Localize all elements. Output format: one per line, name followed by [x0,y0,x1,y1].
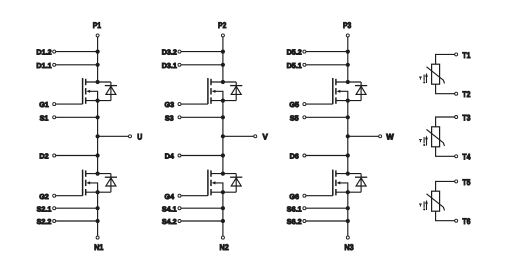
wire S2.1 to bus [56,207,98,209]
junction D2/bus [96,153,100,157]
wire bus: upper MOSFET source down to lower MOSFET drain [222,101,224,174]
junction D1.2/bus [96,50,100,54]
wire T5 to thermistor 3 [436,181,455,191]
junction D1.1/bus [96,63,100,67]
terminal D5.1 [287,61,306,70]
svg-text:P3: P3 [343,21,352,30]
svg-text:N3: N3 [344,243,354,252]
terminal G5 [289,100,305,109]
junction source/bus [96,190,100,194]
wire D5.2 to bus [306,51,348,53]
MOSFET upper leg (G5 device) [333,78,361,104]
wire bus: upper MOSFET source down to lower MOSFET drain [347,101,349,174]
thermistor 3 (NTC) [427,191,445,211]
terminal G3 [165,100,181,109]
svg-text:S4.2: S4.2 [162,217,177,226]
junction source/bus [346,99,350,103]
wire T1 to thermistor 1 [436,54,455,64]
junction S4.2/bus [221,219,225,223]
wire D3.2 to bus [181,51,223,53]
MOSFET upper leg (G3 device) [208,78,236,104]
terminal S6.2 [287,217,306,226]
wire G2 to gate [56,195,83,197]
svg-text:D4: D4 [165,152,174,161]
terminal N3 [344,236,354,252]
junction S2.2/bus [96,219,100,223]
svg-text:G2: G2 [39,192,49,201]
junction D5.1/bus [346,63,350,67]
wire thermistor 2 to T4 [436,147,455,157]
terminal T6 [455,217,471,226]
terminal S4.2 [162,217,181,226]
wire S1 to bus [56,116,98,118]
terminal P2 [218,21,227,37]
junction drain/bus [221,80,225,84]
junction source/bus [346,190,350,194]
wire thermistor 3 to T6 [436,211,455,221]
svg-text:S6.2: S6.2 [287,217,302,226]
terminal G6 [289,192,305,201]
terminal S4.1 [162,204,181,213]
svg-text:S2.2: S2.2 [37,217,52,226]
MOSFET lower leg (G4 device) [208,170,236,196]
terminal V [254,133,269,142]
wire lower MOSFET source bus down to N1 [97,192,99,236]
wire bus to output V [223,135,254,137]
svg-text:N2: N2 [219,243,229,252]
terminal N1 [94,236,104,252]
junction source/bus [221,190,225,194]
wire D4 to bus [181,155,223,157]
terminal D3.1 [162,61,181,70]
svg-text:P1: P1 [93,21,102,30]
wire D1.1 to bus [56,64,98,66]
wire G6 to gate [306,195,333,197]
wire T3 to thermistor 2 [436,117,455,127]
wire S2.2 to bus [56,220,98,222]
wire D5.1 to bus [306,64,348,66]
junction S6.2/bus [346,219,350,223]
svg-text:D5.2: D5.2 [287,48,302,57]
wire D1.2 to bus [56,51,98,53]
body diode of lower MOSFET [355,174,367,193]
body diode of lower MOSFET [230,174,242,193]
terminal G4 [165,192,181,201]
junction drain/bus [96,172,100,176]
terminal T1 [455,51,471,60]
wire G4 to gate [181,195,208,197]
wire thermistor 1 to T2 [436,84,455,94]
junction D5.2/bus [346,50,350,54]
svg-text:D5.1: D5.1 [287,61,302,70]
svg-text:S3: S3 [165,113,174,122]
MOSFET lower leg (G6 device) [333,170,361,196]
wire S3 to bus [181,116,223,118]
junction D3.1/bus [221,63,225,67]
svg-text:D1.2: D1.2 [36,48,51,57]
svg-text:D3.1: D3.1 [162,61,177,70]
temperature arrow annotation of thermistor 2 [419,135,428,146]
junction output W/bus [346,134,350,138]
terminal T3 [455,113,471,122]
terminal W [379,133,394,142]
terminal S6.1 [287,204,306,213]
temperature arrow annotation of thermistor 3 [419,200,428,211]
terminal G2 [39,192,55,201]
wire P2 bus down to upper MOSFET drain [222,37,224,82]
svg-text:S2.1: S2.1 [37,204,52,213]
terminal S1 [40,113,56,122]
wire D2 to bus [56,155,98,157]
svg-text:S5: S5 [290,113,299,122]
terminal P1 [93,21,102,37]
svg-text:T6: T6 [462,217,470,226]
svg-text:T3: T3 [462,113,470,122]
svg-text:D3.2: D3.2 [162,48,177,57]
terminal D4 [165,152,181,161]
svg-text:G5: G5 [289,100,299,109]
terminal D1.1 [36,61,55,70]
wire bus to output U [98,135,129,137]
wire S6.2 to bus [306,220,348,222]
terminal D1.2 [36,48,55,57]
junction drain/bus [96,80,100,84]
svg-text:G4: G4 [165,192,175,201]
junction S2.1/bus [96,206,100,210]
body diode of upper MOSFET [355,82,367,101]
svg-text:D6: D6 [290,152,299,161]
svg-text:S6.1: S6.1 [287,204,302,213]
svg-text:T1: T1 [462,51,470,60]
svg-text:G6: G6 [289,192,299,201]
svg-text:S4.1: S4.1 [162,204,177,213]
junction S3/bus [221,115,225,119]
junction source/bus [221,99,225,103]
wire S4.1 to bus [181,207,223,209]
wire P1 bus down to upper MOSFET drain [97,37,99,82]
terminal S2.1 [37,204,56,213]
wire lower MOSFET source bus down to N3 [347,192,349,236]
terminal S5 [290,113,306,122]
svg-text:G1: G1 [39,100,49,109]
wire D3.1 to bus [181,64,223,66]
wire P3 bus down to upper MOSFET drain [347,37,349,82]
svg-text:V: V [263,133,269,142]
terminal S3 [165,113,181,122]
terminal G1 [39,100,55,109]
wire G5 to gate [306,103,333,105]
junction D3.2/bus [221,50,225,54]
svg-text:T2: T2 [462,90,470,99]
terminal D2 [39,152,55,161]
svg-text:T4: T4 [462,153,470,162]
svg-text:S1: S1 [40,113,49,122]
terminal N2 [219,236,229,252]
svg-text:P2: P2 [218,21,227,30]
svg-text:N1: N1 [94,243,104,252]
wire bus: upper MOSFET source down to lower MOSFET drain [97,101,99,174]
terminal D3.2 [162,48,181,57]
MOSFET upper leg (G1 device) [83,78,111,104]
body diode of upper MOSFET [105,82,117,101]
wire D6 to bus [306,155,348,157]
wire lower MOSFET source bus down to N2 [222,192,224,236]
thermistor 2 (NTC) [427,127,445,147]
terminal P3 [343,21,352,37]
junction S4.1/bus [221,206,225,210]
wire G3 to gate [181,103,208,105]
temperature arrow annotation of thermistor 1 [419,73,428,84]
svg-text:D1.1: D1.1 [36,61,51,70]
wire G1 to gate [56,103,83,105]
terminal U [129,133,143,142]
junction D6/bus [346,153,350,157]
junction S6.1/bus [346,206,350,210]
junction drain/bus [346,80,350,84]
junction D4/bus [221,153,225,157]
MOSFET lower leg (G2 device) [83,170,111,196]
svg-text:W: W [386,133,394,142]
thermistor 1 (NTC) [427,64,445,84]
svg-text:T5: T5 [462,178,470,187]
body diode of upper MOSFET [230,82,242,101]
terminal T4 [455,153,471,162]
junction output U/bus [96,134,100,138]
junction drain/bus [346,172,350,176]
junction S5/bus [346,115,350,119]
wire S5 to bus [306,116,348,118]
terminal D6 [290,152,306,161]
terminal S2.2 [37,217,56,226]
svg-text:G3: G3 [165,100,175,109]
terminal T2 [455,90,471,99]
junction drain/bus [221,172,225,176]
wire bus to output W [348,135,379,137]
wire S4.2 to bus [181,220,223,222]
junction S1/bus [96,115,100,119]
terminal D5.2 [287,48,306,57]
wire S6.1 to bus [306,207,348,209]
junction source/bus [96,99,100,103]
svg-text:U: U [137,133,142,142]
junction output V/bus [221,134,225,138]
body diode of lower MOSFET [105,174,117,193]
terminal T5 [455,178,471,187]
svg-text:D2: D2 [39,152,48,161]
